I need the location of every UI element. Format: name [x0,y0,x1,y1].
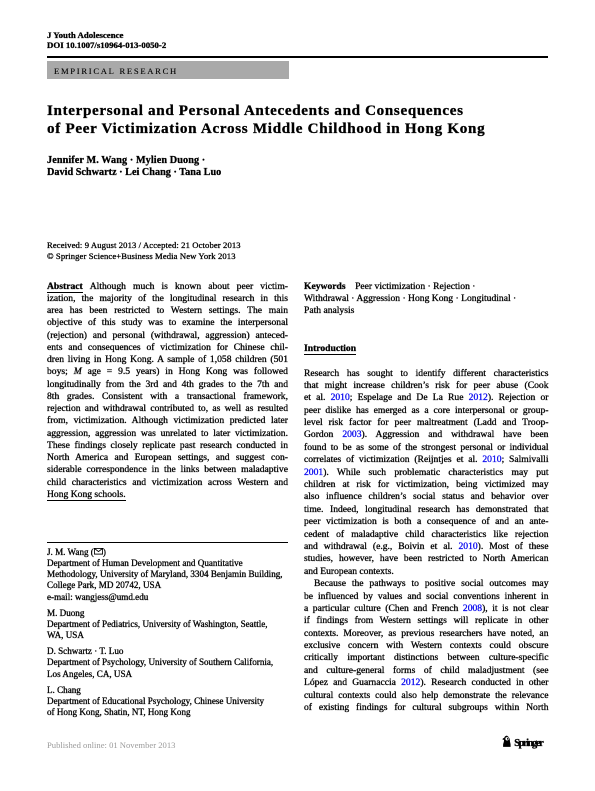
header rule [47,56,548,58]
received / copyright [47,240,241,262]
springer logo [502,734,557,757]
intro body [304,368,549,715]
LEFT COLUMN : abstract [47,281,288,502]
footnotes [47,547,297,719]
title [47,103,485,138]
svg-text:Springer: Springer [514,738,544,749]
introduction heading [304,343,356,354]
RIGHT COLUMN [304,281,549,318]
journal header [47,30,166,51]
footnote separator [47,542,288,543]
published online [47,740,175,750]
authors [47,155,221,178]
banner [47,61,289,79]
